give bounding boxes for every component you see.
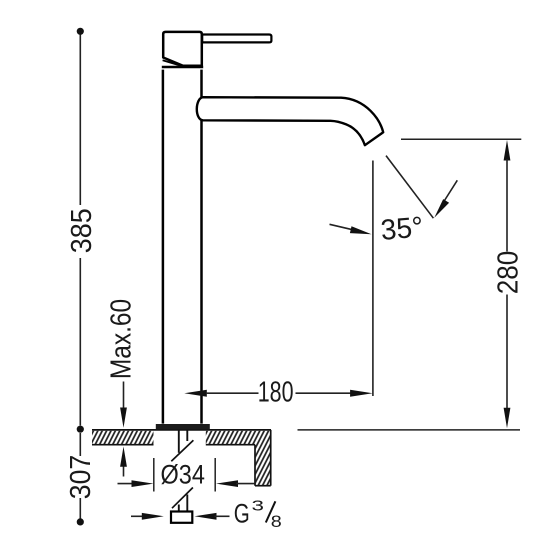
- 280 top extension line: [401, 138, 521, 140]
- threaded rod upper right edge: [186, 430, 188, 442]
- dot at counter level: [77, 426, 84, 433]
- 35-degree left leader arrow: [330, 224, 372, 234]
- head bottom band: [162, 66, 203, 69]
- spout tube: [197, 97, 383, 145]
- faucet column left edge: [162, 70, 165, 424]
- threaded rod lower left edge: [178, 505, 180, 512]
- svg-text:G: G: [234, 499, 250, 529]
- counter leg bottom edge: [255, 485, 271, 487]
- svg-text:35°: 35°: [379, 211, 424, 247]
- svg-text:385: 385: [65, 208, 97, 253]
- faucet head body: [163, 32, 202, 66]
- diameter 34 left arrow: [118, 480, 154, 487]
- svg-text:3: 3: [252, 499, 265, 515]
- head lever wedge tick: [163, 60, 181, 65]
- faucet column right edge lower: [200, 121, 203, 424]
- faucet column right edge upper: [200, 70, 203, 97]
- counter leg outer edge: [270, 430, 272, 486]
- counter hatched band left: [92, 431, 154, 444]
- base flange: [156, 424, 210, 429]
- Max.60 lower arrow (up): [120, 447, 127, 477]
- G3/8 left arrow: [131, 513, 164, 520]
- dimension line 385/307 vertical: [79, 34, 81, 519]
- counter right band bottom line: [206, 444, 255, 446]
- svg-text:Ø34: Ø34: [161, 460, 205, 490]
- 35-degree angled reference line: [386, 156, 433, 219]
- diameter 34 right arrow: [216, 480, 255, 487]
- thread diagonal upper: [171, 440, 193, 461]
- counter level extension line: [298, 429, 521, 431]
- svg-text:180: 180: [258, 376, 294, 408]
- diameter 34 left extension line: [153, 458, 155, 492]
- threaded rod lower right edge: [186, 495, 188, 512]
- 180 dimension left arrow piercing column: [184, 390, 258, 397]
- 280 dimension line with arrows: [504, 140, 511, 428]
- 180 dimension right segment and arrow: [296, 390, 373, 397]
- diameter 34 right extension line: [214, 458, 216, 492]
- counter hatched band right: [206, 431, 270, 444]
- 35-degree vertical reference line: [372, 161, 374, 397]
- counter top surface line: [92, 429, 271, 431]
- label G3/8: [234, 499, 282, 532]
- svg-text:8: 8: [271, 512, 282, 531]
- Max.60 upper arrow (down): [120, 382, 127, 428]
- dot bottom of 307: [77, 518, 84, 525]
- dot top of 385: [77, 28, 84, 35]
- threaded rod upper left edge: [178, 430, 180, 453]
- counter leg inner edge: [254, 445, 256, 486]
- counter right leg hatched: [256, 444, 270, 486]
- 35-degree right leader arrow: [434, 180, 457, 217]
- svg-text:280: 280: [491, 251, 524, 295]
- counter left band bottom line: [92, 444, 154, 446]
- thread diagonal lower: [172, 488, 193, 509]
- svg-text:Max.60: Max.60: [105, 299, 137, 379]
- G3/8 fitting rectangle: [171, 512, 192, 523]
- G3/8 right arrow: [195, 513, 230, 520]
- svg-text:307: 307: [64, 455, 96, 500]
- lever handle bar: [202, 35, 271, 43]
